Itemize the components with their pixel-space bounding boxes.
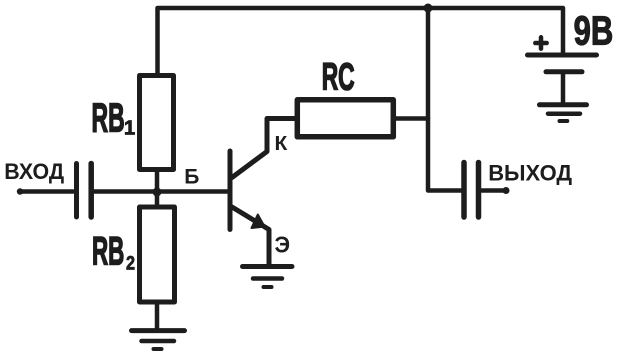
node junction top rail bbox=[424, 4, 433, 13]
transistor VT1 emitter arrow bbox=[252, 215, 265, 229]
svg-text:RB: RB bbox=[92, 96, 125, 142]
capacitor C1 input bbox=[77, 164, 92, 218]
svg-text:Б: Б bbox=[184, 166, 199, 189]
transistor VT1 emitter lead bbox=[232, 207, 269, 265]
wire: input terminal to capacitor C1 bbox=[20, 189, 73, 194]
wire: capacitor C2 to output terminal bbox=[482, 188, 503, 193]
svg-text:RB: RB bbox=[92, 229, 124, 273]
label RB1 bbox=[92, 96, 136, 142]
ground RB2 bbox=[132, 331, 185, 349]
node output terminal bbox=[503, 187, 510, 194]
svg-text:9В: 9В bbox=[574, 7, 614, 53]
svg-text:2: 2 bbox=[126, 252, 135, 274]
node input terminal bbox=[17, 188, 23, 194]
battery GB1 minus plate bbox=[546, 69, 582, 74]
svg-text:RC: RC bbox=[322, 56, 355, 98]
wire: top rail right segment to battery bbox=[428, 8, 563, 54]
wire: battery to ground bbox=[561, 74, 566, 103]
capacitor C2 output bbox=[464, 163, 479, 218]
ground emitter bbox=[243, 267, 293, 288]
svg-text:ВЫХОД: ВЫХОД bbox=[488, 160, 572, 185]
node B junction bbox=[153, 188, 162, 197]
ground battery bbox=[540, 105, 587, 121]
wire: RB2 bottom to ground bbox=[155, 302, 160, 330]
resistor RB1 bbox=[140, 76, 174, 170]
wire: node to RB2 bbox=[155, 192, 160, 207]
label RB2 bbox=[92, 229, 135, 274]
transistor VT1 base bar bbox=[228, 151, 233, 230]
resistor RC bbox=[297, 100, 393, 137]
wire: RB1 bottom to base node bbox=[155, 172, 160, 192]
wire: junction down to output branch bbox=[428, 8, 462, 191]
svg-text:1: 1 bbox=[124, 118, 135, 140]
wire: RB1 top to top rail left segment bbox=[158, 8, 429, 74]
svg-text:К: К bbox=[275, 132, 288, 154]
battery GB1 plus plate bbox=[528, 53, 597, 58]
svg-text:Э: Э bbox=[275, 232, 291, 258]
svg-text:ВХОД: ВХОД bbox=[4, 158, 64, 184]
wire: capacitor C1 to base bbox=[94, 189, 228, 194]
transistor VT1 collector lead bbox=[232, 119, 296, 178]
plus sign battery bbox=[535, 37, 546, 48]
resistor RB2 bbox=[140, 207, 175, 302]
wire: RC right lead to vertical wire bbox=[396, 116, 428, 121]
